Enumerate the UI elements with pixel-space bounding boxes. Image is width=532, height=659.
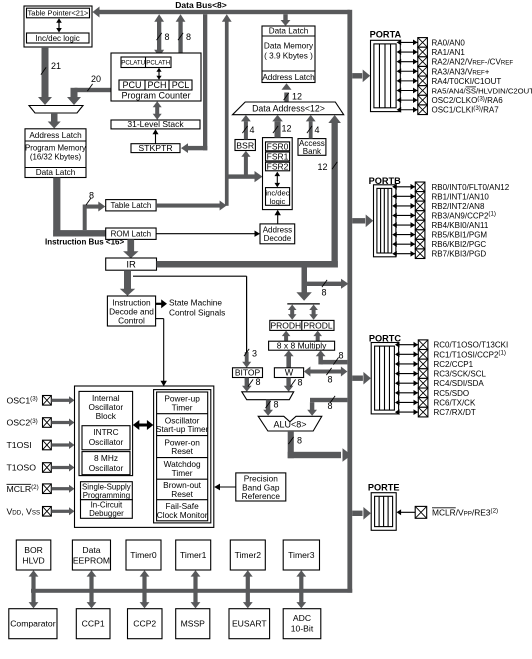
wire PORTA pin line row 0: [400, 41, 418, 43]
svg-text:Reset: Reset: [171, 489, 193, 499]
wire data bus horizontal: [96, 10, 350, 14]
svg-text:HLVD: HLVD: [22, 556, 44, 566]
svg-text:MCLR/VPP/RE3(2)​: MCLR/VPP/RE3(2)​: [432, 507, 498, 517]
svg-text:Control: Control: [118, 315, 145, 325]
inc/dec logic box (data): [266, 188, 290, 206]
svg-text:RB2/INT2/AN8: RB2/INT2/AN8: [432, 202, 485, 211]
ALU block: [258, 416, 322, 431]
svg-text:VDD, VSS: VDD, VSS: [7, 507, 41, 517]
svg-text:31-Level Stack: 31-Level Stack: [127, 119, 184, 129]
svg-text:8 MHz: 8 MHz: [94, 453, 118, 463]
pin pad PORTC row 7: [418, 407, 428, 417]
register BSR: [235, 140, 255, 151]
pin pad left 445.0: [43, 440, 52, 450]
svg-text:Address Latch: Address Latch: [29, 131, 82, 140]
wire 21-bit table pointer to mux: [42, 47, 49, 97]
svg-text:MCLR(2)​: MCLR(2)​: [7, 484, 39, 494]
wire 8-bit literal branch to PRODH bar and data bus: [302, 268, 308, 294]
wire W to data bus (bidirectional 8): [310, 370, 342, 374]
pin pad left 422.5: [43, 418, 52, 428]
wire PORTB pin line row 0: [395, 186, 415, 188]
svg-text:RC2/CCP1: RC2/CCP1: [434, 360, 474, 369]
svg-text:EEPROM: EEPROM: [73, 556, 110, 566]
svg-text:RB5/KBI1/PGM: RB5/KBI1/PGM: [432, 231, 488, 240]
svg-text:8: 8: [186, 32, 191, 42]
FSR block outer box: [263, 138, 293, 210]
svg-text:ALU<8>: ALU<8>: [273, 419, 306, 429]
wire STKPTR to stack: [155, 134, 157, 144]
wire 20-bit program counter to mux: [75, 88, 112, 92]
wire data address mux to address latch (12): [284, 93, 288, 103]
svg-text:(16/32 Kbytes): (16/32 Kbytes): [30, 153, 82, 162]
node bar above PRODH PRODL: [287, 303, 320, 305]
svg-text:State Machine: State Machine: [169, 298, 222, 308]
svg-text:RB4/KBI0/AN11: RB4/KBI0/AN11: [432, 221, 489, 230]
pin pad MCLR: [415, 506, 427, 518]
pin pad PORTB row 1: [415, 192, 425, 202]
wire instruction decode to power-up timer block: [156, 318, 164, 320]
svg-text:Program Memory: Program Memory: [25, 144, 86, 153]
wire PORTA bus arrow from data bus: [352, 73, 362, 78]
precision band gap reference box: [236, 473, 286, 501]
wire program counter to stack (bidirectional): [155, 106, 159, 115]
wire PORTB pin line row 5: [395, 234, 415, 236]
wire PORTB pin line row 7: [395, 253, 415, 255]
INTRC oscillator box: [82, 426, 130, 450]
wire left pin 445.0 to oscillator block: [51, 443, 69, 446]
svg-text:OSC1(3)​: OSC1(3)​: [7, 396, 38, 406]
peripheral box MSSP: [176, 609, 210, 639]
wire data bus to multiply (8): [321, 360, 348, 365]
svg-text:OSC2/CLKO(3)​/RA6: OSC2/CLKO(3)​/RA6: [432, 95, 504, 105]
svg-text:T1OSI: T1OSI: [7, 440, 32, 450]
wire W to multiply: [286, 356, 291, 368]
wire bar to PRODL (bidirectional): [312, 309, 316, 316]
31-level stack box: [111, 120, 200, 129]
wire left pin 400.3 to oscillator block: [51, 399, 69, 402]
pin pad PORTC row 3: [418, 369, 428, 379]
wire W to ALU mux (8): [286, 378, 290, 387]
svg-text:Comparator: Comparator: [10, 619, 56, 629]
wire PORTC pin line row 6: [398, 401, 418, 403]
svg-text:PCLATU: PCLATU: [121, 60, 145, 67]
peripheral box BOR HLVD: [16, 540, 51, 570]
svg-text:RB6/KBI2/PGC: RB6/KBI2/PGC: [432, 240, 487, 249]
pin pad PORTA row 3: [418, 66, 428, 76]
port PORTB register box: [374, 185, 396, 257]
pin pad PORTA row 6: [418, 95, 428, 105]
register BITOP: [233, 368, 263, 378]
wire instruction bus from program memory data latch: [53, 178, 60, 237]
wire PORTA pin line row 7: [400, 109, 418, 111]
pin pad left 511.3: [43, 507, 52, 517]
pin pad PORTB row 6: [415, 239, 425, 249]
pin pad PORTA row 2: [418, 57, 428, 67]
wire IR 12-bit literal to data address mux: [157, 261, 338, 268]
pin pad PORTB row 3: [415, 211, 425, 221]
wire PORTB pin line row 4: [395, 224, 415, 226]
wire PORTC pin line row 0: [398, 344, 418, 346]
peripheral box ADC 10-Bit: [283, 609, 321, 639]
svg-text:Data Address<12>: Data Address<12>: [252, 104, 325, 114]
register Table Pointer<21>: [27, 8, 90, 18]
data memory block (Data Latch / Data Memory / Address Latch): [262, 26, 315, 83]
wire PORTB pin line row 3: [395, 214, 415, 216]
address decode box: [260, 224, 295, 244]
svg-text:Programming: Programming: [83, 491, 130, 500]
svg-text:BSR: BSR: [236, 140, 254, 150]
svg-text:4: 4: [250, 125, 255, 135]
wire ALU result to data bus (8): [288, 431, 294, 458]
svg-text:8: 8: [327, 401, 332, 411]
svg-text:ADC: ADC: [293, 613, 311, 623]
wire data bus to PCL (bidirectional 8): [178, 20, 182, 73]
pin pad PORTB row 0: [415, 182, 425, 192]
pin pad left 488.7: [43, 484, 52, 494]
svg-text:CCP1: CCP1: [82, 619, 105, 629]
svg-text:FSR1: FSR1: [267, 151, 289, 161]
pin pad PORTC row 1: [418, 350, 428, 360]
wire table latch to data bus: [156, 204, 220, 208]
svg-text:RC0/T1OSO/T13CKI: RC0/T1OSO/T13CKI: [434, 341, 509, 350]
svg-text:4: 4: [315, 125, 320, 135]
svg-text:RA4/T0CKI/C1OUT: RA4/T0CKI/C1OUT: [432, 77, 502, 86]
pin pad PORTA row 7: [418, 105, 428, 115]
svg-text:Data: Data: [82, 545, 100, 555]
wire IR to BITOP (3-bit): [133, 275, 247, 277]
svg-text:PORTE: PORTE: [368, 483, 400, 493]
wire peripheral bus arrow x91.5: [89, 577, 93, 603]
svg-text:Timer0: Timer0: [130, 550, 157, 560]
port PORTC register box: [371, 343, 398, 414]
register STKPTR: [131, 144, 180, 153]
register Table Latch: [106, 200, 156, 211]
svg-text:PRODL: PRODL: [303, 320, 333, 330]
pin pad PORTC row 6: [418, 398, 428, 408]
svg-text:Inc/dec logic: Inc/dec logic: [35, 34, 79, 43]
pin pad PORTC row 5: [418, 388, 428, 398]
register IR: [106, 258, 157, 270]
register ROM Latch: [106, 228, 156, 239]
wire left pin 488.7 to oscillator block: [51, 487, 69, 490]
register W: [274, 368, 303, 378]
svg-text:20: 20: [91, 74, 101, 84]
svg-text:ROM Latch: ROM Latch: [111, 230, 151, 239]
wire oscillator block to timer block (bidirectional): [136, 424, 151, 427]
registers PCU PCH PCL: [119, 80, 192, 90]
pin pad PORTB row 5: [415, 230, 425, 240]
wire mux to ALU (8): [266, 400, 270, 410]
wire left pin 467.5 to oscillator block: [51, 466, 69, 469]
wire IR to instruction decode: [124, 270, 131, 289]
wire PORTE bus arrow from data bus: [352, 511, 362, 516]
wire PORTA pin line row 3: [400, 70, 418, 72]
svg-text:Data Memory: Data Memory: [264, 42, 314, 51]
wire PORTC pin line row 7: [398, 411, 418, 413]
svg-text:RA2/AN2/VREF-/CVREF: RA2/AN2/VREF-/CVREF: [432, 58, 514, 67]
svg-text:Program Counter: Program Counter: [121, 91, 190, 101]
wire data bus to ALU right input (8): [310, 398, 347, 402]
svg-text:T1OSO: T1OSO: [7, 463, 37, 473]
wire PORTC bus arrow from data bus: [352, 376, 363, 381]
program memory block (Address Latch / Program Memory / Data Latch): [25, 129, 86, 178]
svg-text:8: 8: [298, 378, 303, 388]
data address mux trapezoid: [233, 102, 344, 115]
svg-text:8: 8: [327, 375, 332, 385]
svg-text:RC6/TX/CK: RC6/TX/CK: [434, 398, 476, 407]
wire FSR to mux (12): [275, 121, 281, 137]
wire FSR to inc/dec logic (bidirectional): [276, 174, 278, 186]
svg-text:RB0/INT0/FLT0/AN12: RB0/INT0/FLT0/AN12: [432, 183, 510, 192]
wire peripheral bus arrow x247.8: [246, 577, 250, 603]
wire access bank to mux (4): [309, 121, 313, 138]
mux trapezoid for program memory address: [29, 106, 83, 114]
svg-text:RB1/INT1/AN10: RB1/INT1/AN10: [432, 192, 490, 201]
peripheral box EUSART: [229, 609, 270, 639]
pin pad PORTA row 4: [418, 76, 428, 86]
svg-text:Control Signals: Control Signals: [169, 308, 225, 318]
svg-text:PRODH: PRODH: [270, 320, 301, 330]
svg-text:RC5/SDO: RC5/SDO: [434, 389, 470, 398]
wire PORTB pin line row 6: [395, 243, 415, 245]
svg-text:W: W: [285, 368, 294, 378]
svg-text:12: 12: [317, 162, 327, 172]
svg-text:Oscillator: Oscillator: [89, 437, 124, 447]
wire feed to BSR from data bus line: [244, 155, 248, 176]
wire PORTA pin line row 4: [400, 80, 418, 82]
svg-text:Oscillator: Oscillator: [89, 463, 124, 473]
svg-text:Debugger: Debugger: [89, 509, 124, 518]
svg-text:Data Latch: Data Latch: [269, 27, 309, 36]
svg-text:RA1/AN1: RA1/AN1: [432, 48, 466, 57]
wire ROM latch to address decode: [156, 233, 254, 235]
svg-text:3: 3: [252, 349, 257, 359]
wire PORTC pin line row 3: [398, 373, 418, 375]
svg-text:Data Bus<8>: Data Bus<8>: [175, 0, 227, 10]
internal oscillator block box: [79, 391, 133, 475]
svg-text:EUSART: EUSART: [232, 619, 267, 629]
port PORTA register box: [371, 40, 401, 111]
wire ROM latch to IR: [127, 239, 134, 252]
wire data bus to data latch: [283, 14, 287, 20]
wire PORTA pin line row 2: [400, 61, 418, 63]
single-supply programming box: [81, 482, 133, 500]
svg-text:Address Latch: Address Latch: [262, 73, 315, 82]
svg-text:Decode: Decode: [264, 234, 292, 243]
wire PORTA pin line row 1: [400, 51, 418, 53]
svg-text:8: 8: [339, 351, 344, 361]
bus right vertical (main data bus trunk): [347, 10, 352, 593]
wire PORTA pin line row 5: [400, 90, 418, 92]
svg-text:CCP2: CCP2: [133, 619, 156, 629]
svg-text:PORTA: PORTA: [370, 29, 402, 39]
svg-text:Table Pointer<21>: Table Pointer<21>: [28, 8, 89, 17]
wire PORTB pin line row 1: [395, 195, 415, 197]
ALU input mux trapezoid: [242, 392, 294, 400]
svg-text:Block: Block: [96, 411, 117, 421]
svg-text:Start-up Timer: Start-up Timer: [156, 424, 209, 434]
svg-text:PCLATH: PCLATH: [146, 60, 170, 67]
registers PRODH PRODL: [270, 320, 334, 330]
svg-text:Table Latch: Table Latch: [110, 201, 151, 210]
svg-text:8: 8: [165, 32, 170, 42]
svg-text:RB7/KBI3/PGD: RB7/KBI3/PGD: [432, 250, 487, 259]
pin pad PORTC row 4: [418, 378, 428, 388]
wire bar to PRODH (bidirectional): [290, 309, 294, 316]
wire 8-bit branch to table latch: [83, 205, 87, 231]
peripheral box CCP1: [76, 609, 110, 639]
wire PORTB bus arrow from data bus: [352, 218, 365, 223]
wire PORTE pin line: [399, 511, 415, 513]
svg-text:10-Bit: 10-Bit: [291, 624, 314, 634]
wire PORTB pin line row 2: [395, 205, 415, 207]
registers PCLATU PCLATH: [121, 57, 171, 68]
wire multiply to PRODH: [284, 336, 288, 341]
svg-text:8 x 8 Multiply: 8 x 8 Multiply: [277, 341, 327, 351]
wire peripheral bus arrow x144.5: [142, 577, 146, 603]
svg-text:PCH: PCH: [147, 80, 166, 90]
pin pad PORTC row 2: [418, 359, 428, 369]
wire PORTC pin line row 2: [398, 363, 418, 365]
wire PORTC pin line row 5: [398, 392, 418, 394]
svg-text:Clock Monitor: Clock Monitor: [157, 510, 208, 520]
pin pad left 467.5: [43, 463, 52, 473]
wire control signals arrow: [156, 303, 162, 305]
svg-text:8: 8: [274, 400, 279, 410]
svg-text:Reference: Reference: [242, 491, 281, 501]
svg-text:FSR2: FSR2: [267, 161, 289, 171]
svg-text:IR: IR: [126, 260, 136, 271]
pin pad PORTA row 1: [418, 47, 428, 57]
svg-text:Timer: Timer: [172, 402, 193, 412]
svg-text:INTRC: INTRC: [93, 427, 118, 437]
pin pad PORTB row 4: [415, 220, 425, 230]
svg-text:8: 8: [321, 288, 326, 298]
peripheral box Comparator: [9, 609, 57, 639]
svg-text:STKPTR: STKPTR: [138, 143, 172, 153]
port PORTE register box: [371, 493, 396, 531]
wire PORTC pin line row 1: [398, 353, 418, 355]
svg-text:BOR: BOR: [24, 545, 43, 555]
svg-text:8: 8: [89, 191, 94, 201]
svg-text:12: 12: [282, 124, 292, 134]
registers FSR0 FSR1 FSR2: [266, 142, 290, 151]
svg-text:21: 21: [51, 61, 61, 71]
wire data bus to PCLATU/PCLATH (bidirectional 8): [157, 20, 161, 51]
svg-text:RC1/T1OSI/CCP2(1)​: RC1/T1OSI/CCP2(1)​: [434, 350, 506, 360]
svg-text:Timer: Timer: [172, 468, 193, 478]
inc/dec logic box: [27, 33, 90, 43]
svg-text:Timer2: Timer2: [235, 550, 262, 560]
wire left pin 422.5 to oscillator block: [51, 421, 69, 424]
oscillator and reset outer box: [75, 386, 214, 527]
peripheral box Data EEPROM: [72, 540, 110, 570]
svg-text:RA0/AN0: RA0/AN0: [432, 38, 466, 47]
peripheral box Timer2: [230, 540, 265, 570]
svg-text:Timer1: Timer1: [180, 550, 207, 560]
svg-text:12: 12: [292, 92, 302, 102]
wire mux to address latch: [51, 113, 58, 122]
peripheral box CCP2: [128, 609, 163, 639]
svg-text:Data Latch: Data Latch: [36, 168, 76, 177]
svg-text:RA5/AN4/SS/HLVDIN/C2OUT: RA5/AN4/SS/HLVDIN/C2OUT: [432, 87, 532, 96]
svg-text:OSC2(3)​: OSC2(3)​: [7, 418, 38, 428]
wire left pin 511.3 to oscillator block: [51, 510, 69, 513]
pin pad left 400.3: [43, 396, 52, 406]
wire address decode to inc/dec logic: [277, 214, 279, 224]
8 MHz oscillator box: [82, 452, 130, 475]
svg-text:Timer3: Timer3: [288, 550, 315, 560]
svg-text:Reset: Reset: [171, 446, 193, 456]
pin pad PORTC row 0: [418, 340, 428, 350]
wire BITOP to ALU mux (8): [245, 378, 249, 387]
wire multiply to PRODL: [316, 336, 320, 341]
svg-text:RC3/SCK/SCL: RC3/SCK/SCL: [434, 370, 487, 379]
svg-text:8: 8: [256, 377, 261, 387]
svg-text:RC7/RX/DT: RC7/RX/DT: [434, 408, 476, 417]
pin pad PORTA row 0: [418, 38, 428, 48]
wire data bus branch to STKPTR: [203, 14, 207, 150]
wire band gap to brown-out reset: [219, 486, 236, 488]
svg-text:RA3/AN3/VREF+: RA3/AN3/VREF+: [432, 67, 490, 76]
svg-text:Address: Address: [263, 225, 292, 234]
svg-text:OSC1/CLKI(3)​/RA7: OSC1/CLKI(3)​/RA7: [432, 105, 500, 115]
timer and reset block outer box: [154, 390, 211, 523]
peripheral box Timer0: [126, 540, 161, 570]
wire PCLATH to PCH (bidirectional): [158, 70, 160, 78]
svg-text:MSSP: MSSP: [181, 619, 206, 629]
svg-text:Bank: Bank: [303, 147, 322, 156]
wire peripheral bus arrow x195.5: [193, 577, 197, 603]
access bank box: [298, 139, 326, 156]
instruction decode and control box: [107, 296, 155, 326]
table pointer block outer box: [24, 6, 92, 47]
wire peripheral bus arrow x301.3: [299, 577, 303, 603]
pin pad PORTB row 2: [415, 201, 425, 211]
pin pad PORTA row 5: [418, 86, 428, 96]
wire PORTC pin line row 4: [398, 382, 418, 384]
program counter outer box: [111, 53, 201, 101]
svg-text:RB3/AN9/CCP2(1)​: RB3/AN9/CCP2(1)​: [432, 211, 496, 221]
svg-text:FSR0: FSR0: [267, 141, 289, 151]
wire data bus junction to FSR block: [227, 174, 257, 178]
svg-text:PCU: PCU: [122, 80, 141, 90]
wire PORTA pin line row 6: [400, 99, 418, 101]
svg-text:( 3.9 Kbytes ): ( 3.9 Kbytes ): [264, 52, 313, 61]
wire bottom peripheral bus: [31, 589, 352, 593]
peripheral box Timer1: [176, 540, 211, 570]
svg-text:8: 8: [297, 436, 302, 446]
8x8 multiply box: [269, 341, 335, 350]
svg-text:logic: logic: [270, 197, 286, 206]
wire BSR to mux (4): [244, 121, 248, 139]
svg-text:RC4/SDI/SDA: RC4/SDI/SDA: [434, 379, 485, 388]
svg-text:PORTC: PORTC: [369, 333, 402, 343]
wire peripheral bus arrow x33.5: [31, 577, 35, 603]
wire table pointer to inc/dec (bidirectional): [58, 21, 60, 31]
in-circuit debugger box: [81, 500, 133, 519]
peripheral box Timer3: [283, 540, 319, 570]
pin pad PORTB row 7: [415, 249, 425, 259]
svg-text:PCL: PCL: [172, 80, 190, 90]
